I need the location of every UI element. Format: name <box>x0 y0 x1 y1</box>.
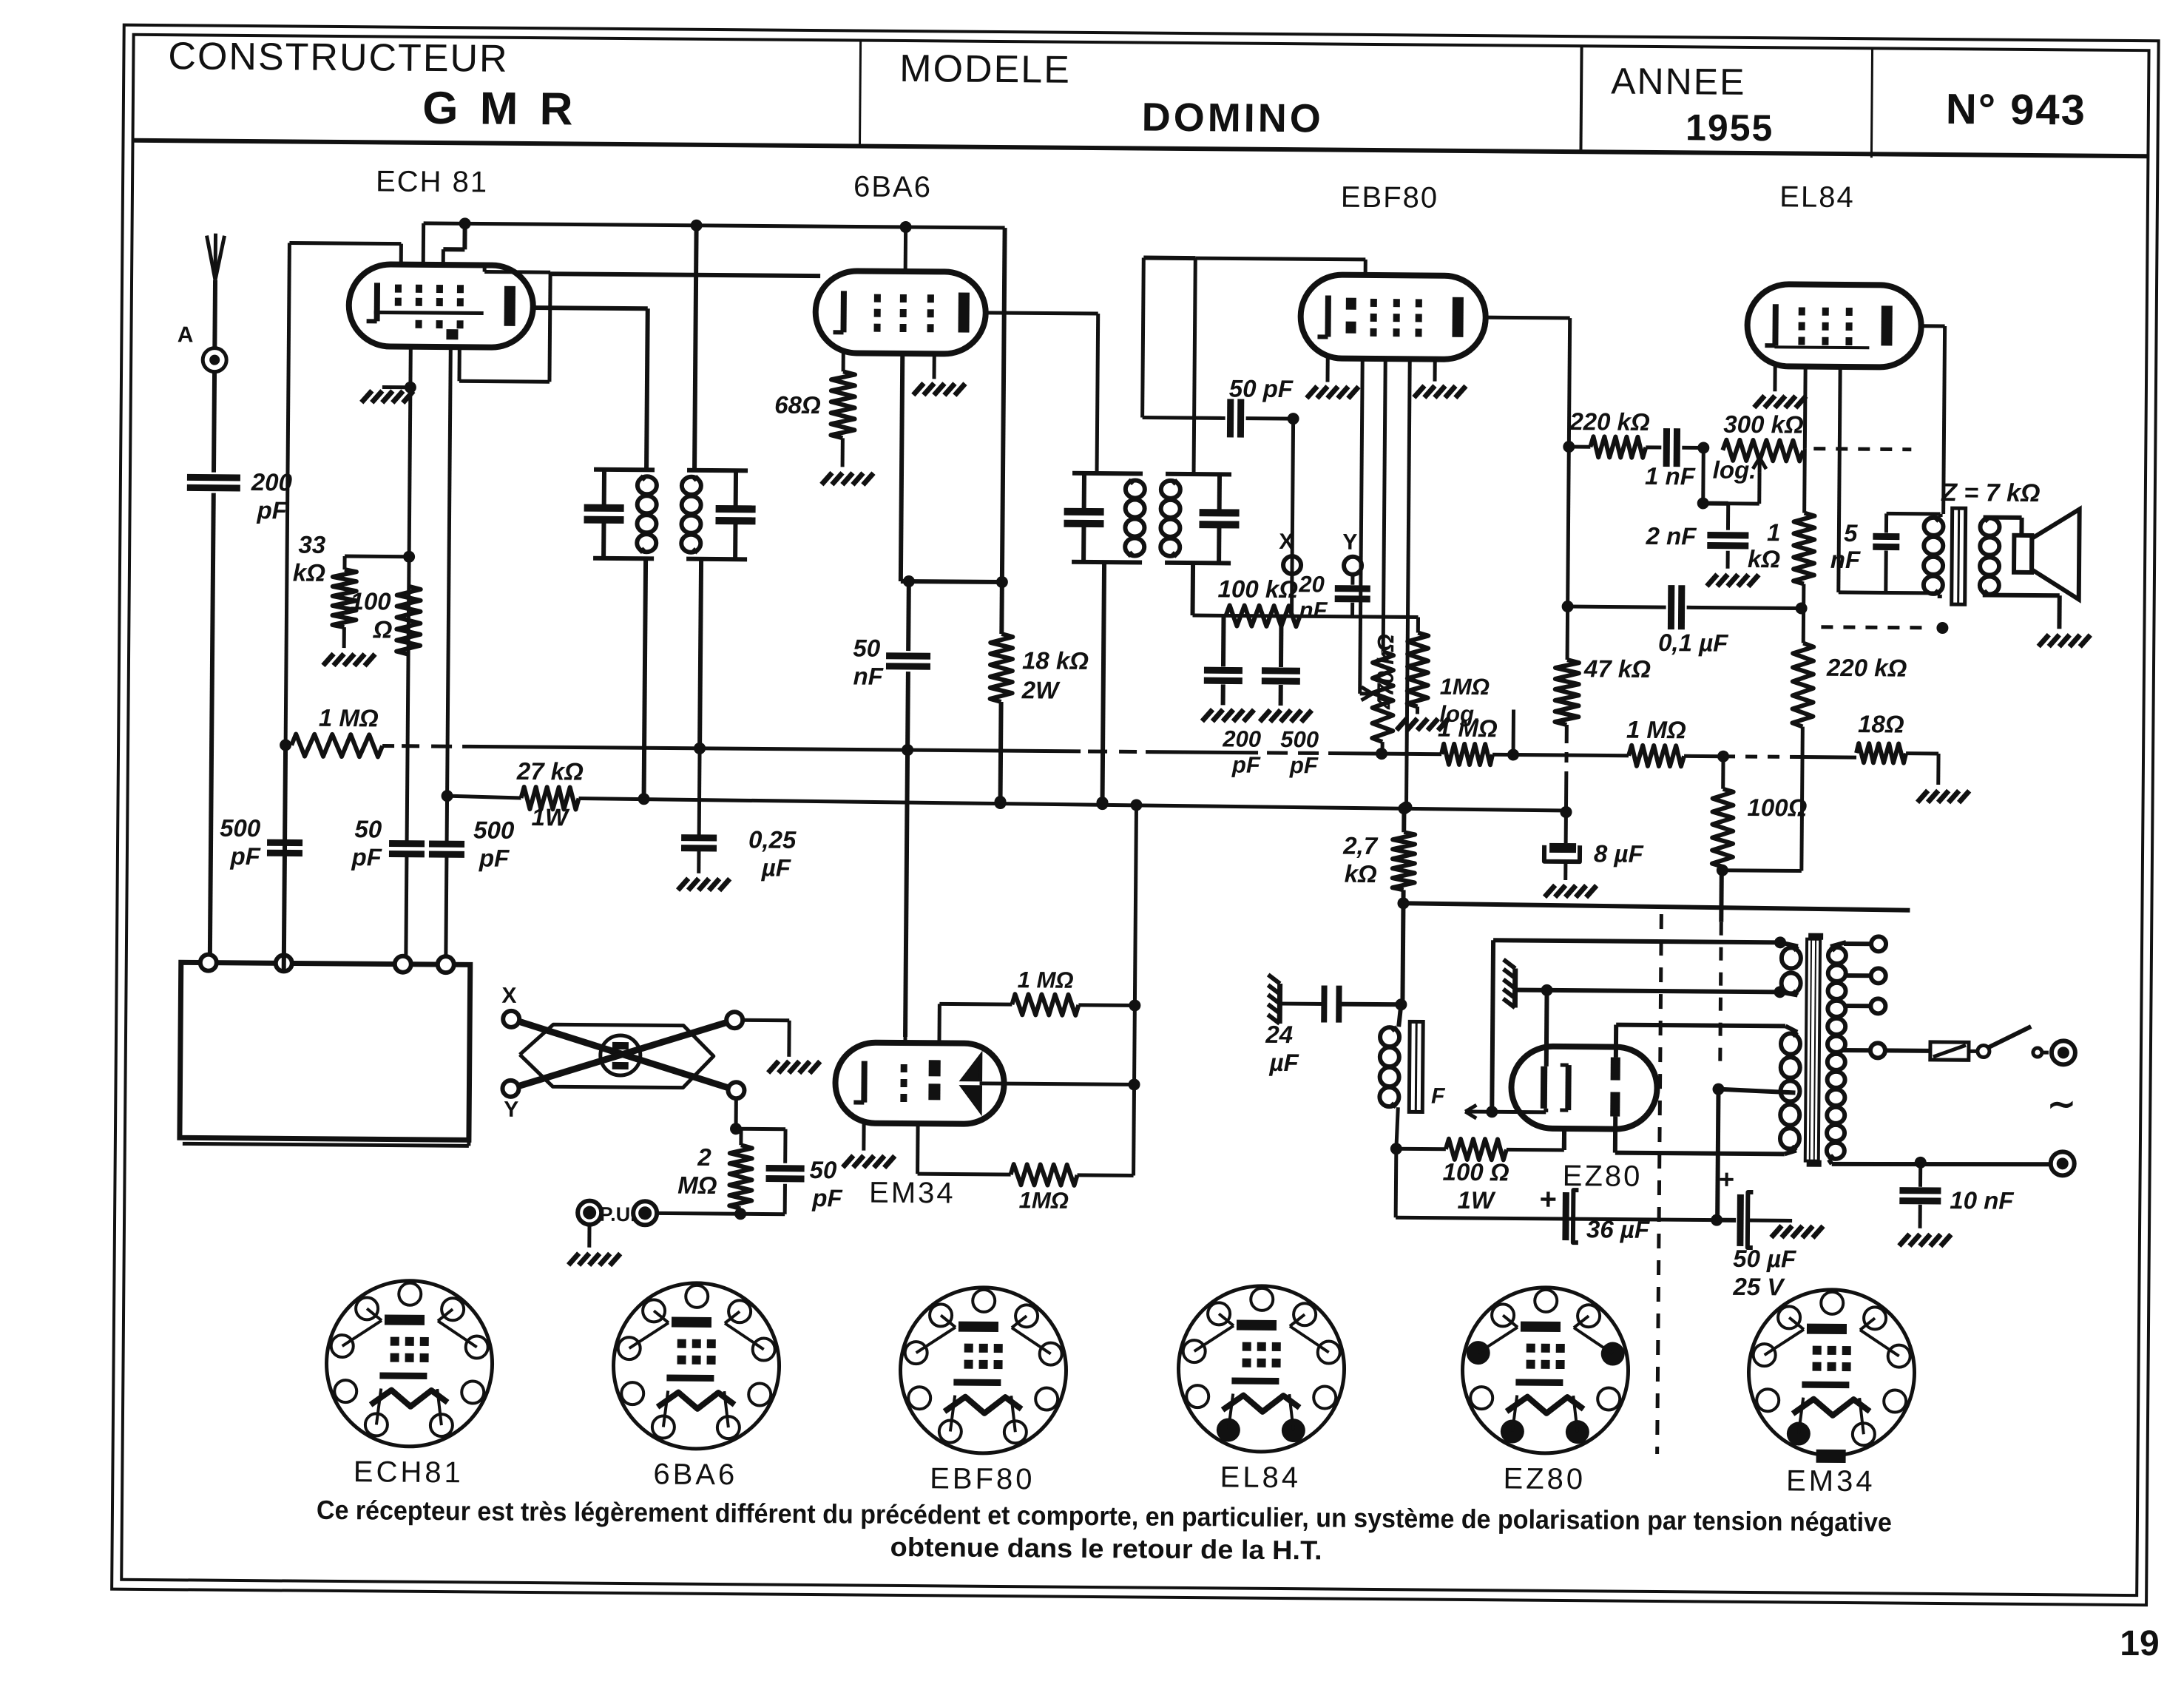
svg-text:+: + <box>1539 1183 1557 1216</box>
svg-text:50: 50 <box>809 1156 837 1183</box>
svg-text:1MΩ: 1MΩ <box>1440 674 1490 700</box>
svg-text:1 MΩ: 1 MΩ <box>1626 716 1686 744</box>
svg-text:MΩ: MΩ <box>677 1171 717 1199</box>
svg-text:MODELE: MODELE <box>899 47 1071 92</box>
svg-text:0,1 µF: 0,1 µF <box>1658 629 1728 657</box>
svg-text:500: 500 <box>473 816 515 843</box>
svg-text:1 MΩ: 1 MΩ <box>319 704 379 732</box>
svg-text:pF: pF <box>256 496 287 524</box>
svg-text:X: X <box>1279 530 1294 554</box>
svg-text:DOMINO: DOMINO <box>1142 95 1324 141</box>
svg-text:obtenue dans le retour de: obtenue dans le retour de la H.T. <box>890 1532 1322 1566</box>
svg-text:pF: pF <box>229 842 260 870</box>
svg-text:1W: 1W <box>531 803 570 831</box>
svg-text:nF: nF <box>1830 546 1861 573</box>
svg-text:47 kΩ: 47 kΩ <box>1583 655 1651 683</box>
svg-text:50: 50 <box>853 634 881 661</box>
svg-text:2: 2 <box>697 1143 711 1171</box>
svg-text:EL84: EL84 <box>1779 180 1855 214</box>
svg-text:EM34: EM34 <box>869 1177 956 1210</box>
svg-text:27 kΩ: 27 kΩ <box>516 757 584 785</box>
svg-text:P.U.: P.U. <box>599 1203 635 1225</box>
svg-text:EZ80: EZ80 <box>1503 1462 1586 1495</box>
svg-text:100Ω: 100Ω <box>1747 794 1807 822</box>
svg-text:Y: Y <box>504 1098 518 1122</box>
svg-text:1W: 1W <box>1457 1186 1496 1214</box>
svg-text:∼: ∼ <box>2047 1084 2076 1123</box>
svg-text:Ω: Ω <box>372 615 392 643</box>
svg-text:1 nF: 1 nF <box>1645 462 1696 490</box>
svg-text:1 MΩ: 1 MΩ <box>1438 714 1498 743</box>
svg-text:24: 24 <box>1265 1021 1293 1048</box>
svg-text:8 µF: 8 µF <box>1594 839 1644 868</box>
svg-text:µF: µF <box>1268 1049 1299 1076</box>
svg-text:EBF80: EBF80 <box>930 1462 1035 1495</box>
svg-text:1MΩ: 1MΩ <box>1019 1187 1069 1214</box>
svg-text:19: 19 <box>2120 1624 2159 1663</box>
svg-text:kΩ: kΩ <box>1345 860 1378 887</box>
svg-text:18 kΩ: 18 kΩ <box>1022 646 1089 674</box>
svg-text:+: + <box>1719 1164 1734 1194</box>
svg-text:2,7: 2,7 <box>1342 832 1379 859</box>
svg-text:500: 500 <box>220 814 261 842</box>
svg-text:50: 50 <box>354 815 382 842</box>
svg-text:1 MΩ: 1 MΩ <box>1018 967 1074 993</box>
svg-text:100 kΩ: 100 kΩ <box>1217 575 1298 603</box>
svg-text:ECH81: ECH81 <box>354 1455 464 1489</box>
svg-text:kΩ: kΩ <box>1748 545 1781 572</box>
svg-text:X: X <box>501 984 516 1008</box>
svg-text:25 V: 25 V <box>1732 1273 1785 1301</box>
svg-text:ANNEE: ANNEE <box>1611 60 1746 102</box>
svg-text:µF: µF <box>761 853 791 881</box>
svg-text:EM34: EM34 <box>1786 1464 1876 1498</box>
svg-text:N° 943: N° 943 <box>1946 85 2086 134</box>
svg-text:1: 1 <box>1767 518 1781 546</box>
svg-text:68Ω: 68Ω <box>774 391 821 419</box>
svg-text:pF: pF <box>1289 752 1319 778</box>
svg-text:200: 200 <box>1222 726 1261 751</box>
svg-text:ECH 81: ECH 81 <box>376 165 488 198</box>
svg-text:18Ω: 18Ω <box>1858 710 1904 737</box>
svg-text:pF: pF <box>811 1184 842 1211</box>
svg-text:CONSTRUCTEUR: CONSTRUCTEUR <box>168 35 509 81</box>
svg-text:G M R: G M R <box>422 83 578 135</box>
svg-text:0,25: 0,25 <box>748 825 797 853</box>
svg-text:6BA6: 6BA6 <box>853 170 932 203</box>
svg-text:A: A <box>178 322 194 347</box>
svg-text:pF: pF <box>351 843 382 870</box>
svg-text:nF: nF <box>1299 597 1328 623</box>
svg-text:5: 5 <box>1844 519 1858 547</box>
svg-text:6BA6: 6BA6 <box>653 1458 737 1491</box>
svg-text:kΩ: kΩ <box>293 559 326 586</box>
svg-text:2 nF: 2 nF <box>1645 522 1697 550</box>
svg-text:pF: pF <box>1231 751 1261 777</box>
svg-text:20: 20 <box>1298 571 1325 597</box>
svg-text:220 kΩ: 220 kΩ <box>1569 408 1650 436</box>
svg-text:EZ80: EZ80 <box>1563 1160 1643 1193</box>
svg-text:36 µF: 36 µF <box>1586 1215 1650 1243</box>
svg-text:50 µF: 50 µF <box>1733 1245 1796 1273</box>
svg-text:Z = 7 kΩ: Z = 7 kΩ <box>1941 479 2041 507</box>
svg-text:EL84: EL84 <box>1220 1461 1301 1494</box>
svg-text:nF: nF <box>853 662 883 689</box>
svg-text:220 kΩ: 220 kΩ <box>1826 654 1907 682</box>
svg-text:Y: Y <box>1342 530 1357 555</box>
svg-text:500: 500 <box>1280 726 1319 752</box>
svg-text:10 nF: 10 nF <box>1950 1186 2014 1214</box>
svg-text:33: 33 <box>298 531 325 558</box>
svg-text:50 pF: 50 pF <box>1229 374 1294 402</box>
svg-text:EBF80: EBF80 <box>1341 181 1439 214</box>
svg-text:pF: pF <box>479 844 510 871</box>
svg-text:F: F <box>1431 1084 1445 1109</box>
svg-text:100 Ω: 100 Ω <box>1442 1158 1509 1186</box>
svg-text:1955: 1955 <box>1686 106 1774 149</box>
svg-text:300 kΩ: 300 kΩ <box>1723 410 1804 439</box>
svg-text:2W: 2W <box>1021 676 1061 703</box>
